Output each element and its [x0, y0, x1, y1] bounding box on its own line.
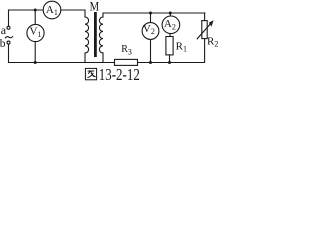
resistor R2 [202, 21, 207, 39]
wire secondary top lead and top-right rail [103, 13, 205, 17]
wire R1 bottom lead [169, 55, 171, 63]
resistor R1 [166, 37, 173, 55]
junction node A2 top [169, 12, 172, 15]
junction node V2 top [149, 12, 152, 15]
svg-text:a: a [1, 23, 7, 37]
transformer core [94, 12, 97, 57]
wire b down to bottom rail [9, 44, 115, 62]
svg-text:b: b [0, 38, 6, 50]
wire bottom right rail [138, 39, 205, 63]
transformer secondary winding [99, 17, 103, 53]
svg-text:13-2-12: 13-2-12 [99, 65, 140, 82]
ammeter A2 [162, 16, 180, 34]
terminal b [7, 41, 10, 44]
terminal a [7, 26, 10, 29]
arrowhead of R2 arrow [209, 20, 214, 27]
wire A2 top lead [169, 13, 171, 16]
wire R2 top lead [204, 13, 206, 21]
wire A2 bottom lead [169, 34, 171, 37]
resistor R3 [115, 59, 138, 65]
wire a up and top primary rail [9, 10, 86, 26]
svg-text:M: M [90, 0, 100, 13]
wire V2 top lead [150, 13, 152, 23]
wire V1 top lead [34, 10, 36, 25]
transformer primary winding [85, 17, 89, 53]
AC tilde [5, 36, 13, 38]
junction node V1 bottom [34, 61, 37, 64]
wire primary bottom lead [84, 53, 86, 63]
caption glyph tu (drawn) [85, 68, 96, 79]
voltmeter V2 [142, 23, 159, 40]
rheostat arrow R2 [197, 22, 212, 39]
ammeter A1 [43, 1, 61, 19]
voltmeter V1 [27, 24, 44, 41]
wire secondary bottom lead [102, 53, 104, 63]
junction node V1 top [34, 9, 37, 12]
junction node R1 bottom [168, 61, 171, 64]
wire V1 bottom lead [34, 42, 36, 63]
wire V2 bottom lead [150, 39, 152, 62]
junction node V2 bottom [149, 61, 152, 64]
